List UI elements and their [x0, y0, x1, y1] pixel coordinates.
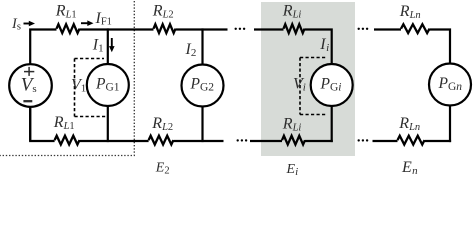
arrow IF1 [81, 20, 94, 26]
ellipsis dots bottom 2 [358, 139, 369, 141]
wire Vs bottom [29, 106, 31, 141]
resistor RL2 top [154, 24, 176, 33]
minus sign of Vs [23, 100, 32, 102]
bottom wire RL2 to break [173, 140, 223, 142]
wire RL2 to break [176, 28, 228, 30]
wire RLn to corner down to PGn [430, 30, 451, 65]
resistor RLi bottom [282, 136, 305, 145]
wire PGn bottom [449, 105, 451, 142]
wire PG1 bottom [107, 105, 109, 142]
wire into section n [374, 28, 401, 30]
voltage source Vs circle [9, 64, 52, 107]
shaded section Ei background [261, 2, 355, 156]
wire PG1 branch top [107, 28, 109, 65]
generator PGi circle [311, 64, 353, 106]
ellipsis dots bottom 1 [237, 139, 248, 141]
resistor RL1 top [57, 24, 80, 33]
ellipsis dots top 1 [235, 28, 246, 30]
wire into section i [254, 28, 284, 30]
resistor RLi top [284, 24, 305, 33]
bottom wire left corner to RL1 [30, 106, 54, 141]
wire PG2 bottom [201, 106, 203, 142]
generator PG1 circle [87, 64, 129, 106]
dotted boundary of source section E1 [0, 1, 134, 156]
bottom wire RL1 to RL2 [80, 140, 149, 142]
bottom wire into section i [250, 140, 282, 142]
bottom wire RLn to PGn corner [425, 140, 452, 142]
wire RLi to corner down to PGi [305, 30, 332, 66]
bottom wire into section n [373, 140, 398, 142]
arrow Is [24, 21, 36, 27]
dashed voltage box V1 [75, 59, 107, 117]
arrow I1 down [109, 38, 115, 52]
resistor RLn bottom [398, 136, 425, 145]
resistor RL2 bottom [149, 136, 174, 145]
resistor RLn top [401, 24, 430, 33]
plus sign of Vs [24, 67, 34, 76]
wire RL1 to RL2 [80, 28, 154, 30]
resistor RL1 bottom [55, 136, 80, 145]
dashed voltage box Vi [300, 58, 328, 115]
wire top left corner to RL1 [30, 30, 56, 66]
generator PG2 circle [182, 65, 224, 107]
generator PGn circle [429, 64, 471, 106]
bottom wire RLi to PGi corner [305, 140, 333, 142]
ellipsis dots top 2 [358, 28, 369, 30]
wire PG2 branch top [201, 28, 203, 65]
wire PGi bottom [331, 105, 333, 142]
